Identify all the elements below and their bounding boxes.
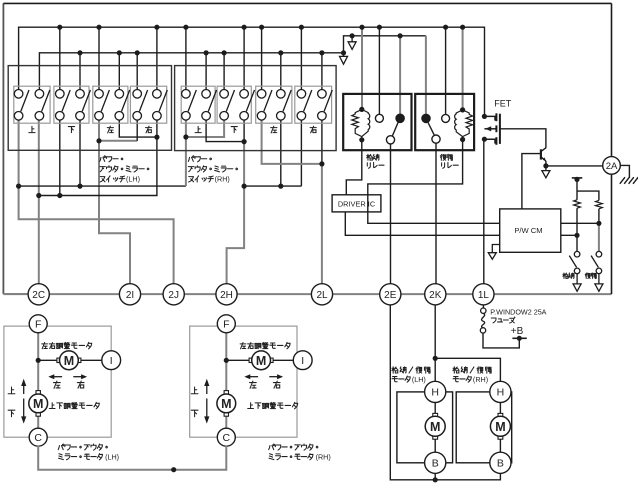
svg-text:C: C: [34, 432, 42, 444]
circuit breaker 2A: [603, 157, 621, 175]
motor M1 left-right adjusting (RH): [249, 351, 273, 370]
wire: node to reset switch: [598, 223, 600, 251]
wire: 2A to chassis ground: [620, 165, 629, 178]
svg-text:2I: 2I: [126, 290, 134, 301]
page connector arrow (P/W CM): [488, 253, 496, 260]
junction at (99.0,27.2): [96, 25, 101, 30]
label: up-down adjusting motor (LH): [49, 402, 99, 408]
wire: C(LH) to C(RH) common: [38, 446, 226, 470]
wire: bus A feed at x=244.1: [243, 27, 245, 89]
junction: R2 / P-W CM node: [596, 221, 601, 226]
wire: reset relay coil to P/W CM: [368, 140, 500, 224]
terminal B (RH): [490, 452, 511, 473]
wire: FET gate to transistor: [500, 129, 546, 148]
wire: bus A feed at x=99.0: [98, 27, 100, 89]
wire: LH sw8 bottom run to sw2/sw3 tie: [39, 120, 157, 195]
switch contact S15: [297, 90, 312, 121]
switch unit box (下): [217, 86, 251, 123]
junction at (362.0,27.2): [359, 25, 364, 30]
wire: RH sw8 bottom drop: [321, 120, 323, 164]
relay movable contact terminal (storage relay): [396, 114, 405, 123]
wire: transistor base to P/W CM: [522, 154, 540, 209]
label: power outer mirror motor (LH): [58, 444, 119, 461]
wire: bus A to storage relay fixed contact: [378, 27, 380, 114]
label: 下: [68, 127, 74, 133]
wire: bus B feed at x=206.1: [205, 53, 207, 90]
switch contact S16: [318, 90, 333, 121]
label: left-right adjusting motor (LH): [42, 342, 92, 348]
connector 2E: [380, 284, 401, 305]
wire: tap to motor M1 (LH): [38, 359, 58, 361]
junction: emitter node: [543, 163, 548, 168]
relay movable contact terminal (reset relay): [422, 114, 431, 123]
switch block box: power outer mirror switch RH: [175, 66, 337, 151]
relay coil (reset relay): [455, 107, 473, 142]
connector 2C: [28, 284, 49, 305]
junction at (80.0,186.1): [77, 184, 82, 189]
wire: reset relay contact to 2K: [435, 143, 437, 284]
junction at (261.6,27.2): [259, 25, 264, 30]
wire: motor M1 to terminal I (RH): [272, 359, 294, 361]
connector 1L: [473, 284, 494, 305]
switch contact S14: [277, 90, 292, 121]
wire: RH sw2 bottom to sw4 line: [206, 120, 244, 142]
switch contact S12: [240, 90, 255, 121]
mirror motor assembly box (LH): [4, 326, 111, 437]
switch contact S2: [35, 90, 50, 121]
wire: bus B feed at x=280.8: [280, 53, 282, 90]
junction at (244.1,27.2): [242, 25, 247, 30]
IC U1: DRIVER IC: [332, 195, 381, 212]
junction: R1 / P-W CM node: [574, 233, 579, 238]
wire: LH sw2 bottom to 2C: [38, 120, 40, 284]
wire: +B feed, top run across page: [3, 2, 611, 4]
wire: 2A to bus right riser: [611, 174, 613, 294]
junction: M1 tap (RH): [224, 358, 229, 363]
junction at (321.9,163.9): [319, 161, 324, 166]
svg-text:2L: 2L: [316, 290, 328, 301]
junction at (185.9,27.2): [183, 25, 188, 30]
junction at (185.9,137.0): [183, 134, 188, 139]
connector 2H: [216, 284, 237, 305]
svg-text:M: M: [64, 354, 74, 368]
svg-text:H: H: [497, 387, 505, 399]
wire: RH sw5 bottom to sw8 tie: [262, 120, 322, 164]
label: 左: [107, 126, 113, 133]
switch contact S9: [182, 90, 197, 121]
svg-text:I: I: [301, 355, 304, 367]
label: up-down adjusting motor (RH): [248, 402, 298, 408]
svg-text:1L: 1L: [478, 290, 490, 301]
label: 上: [195, 126, 201, 132]
label: 上: [29, 126, 35, 132]
motor M2 up-down adjusting (RH): [217, 391, 236, 417]
switch unit box (上): [14, 86, 50, 123]
wire: RH sw1 branch to sw3: [186, 120, 224, 137]
switch contact S1: [14, 90, 29, 121]
relay common contact (storage relay): [386, 136, 394, 144]
label: storage/return motor (LH): [392, 367, 430, 384]
svg-text:P.WINDOW2 25A: P.WINDOW2 25A: [490, 308, 546, 317]
label: 左: [271, 126, 277, 133]
switch contact S10: [202, 90, 217, 121]
page connector arrow below transistor: [542, 171, 550, 178]
junction at (379.4,27.2): [377, 25, 382, 30]
relay fixed contact (storage relay): [375, 114, 383, 122]
wire: bus A feed at x=59.8: [59, 27, 61, 89]
wire: branch to H (RH): [435, 358, 500, 381]
junction at (321.9,52.8): [319, 50, 324, 55]
storage/return motor box (LH): [397, 392, 453, 463]
junction at (119.3,52.8): [117, 50, 122, 55]
label: power outer mirror motor (RH): [269, 444, 331, 461]
junction at (59.8,195.5): [57, 193, 62, 198]
svg-text:M: M: [430, 420, 440, 434]
wire: bus A feed at x=301.4: [300, 27, 302, 89]
svg-text:P/W CM: P/W CM: [514, 226, 542, 235]
wire: relay supply bus C: [344, 36, 426, 53]
wire: +B feed, right branch down to circuit breaker 2A: [611, 3, 613, 156]
wire: bus B feed at x=137.2: [136, 53, 138, 90]
junction: B(LH) tap: [433, 477, 438, 482]
svg-text:I: I: [110, 355, 113, 367]
junction at (301.4,27.2): [299, 25, 304, 30]
labels: 上 下 (RH): [191, 387, 198, 417]
switch contact S4: [76, 90, 91, 121]
arrows: up-down travel (RH): [204, 379, 209, 424]
module: P/W CM (power window control module): [500, 209, 561, 252]
terminal H (LH): [425, 381, 446, 402]
switch unit box (上): [181, 86, 215, 123]
wire: B(LH) stub: [434, 473, 436, 479]
junction at (244.1,186.1): [242, 184, 247, 189]
junction at (445.6,27.2): [443, 25, 448, 30]
svg-text:2A: 2A: [606, 161, 618, 172]
labels: 上 下 (LH): [8, 387, 15, 417]
junction: M1 tap (LH): [36, 358, 41, 363]
transistor FET (power MOSFET): [484, 113, 500, 145]
label: FET: [494, 99, 512, 109]
wire: R2 to node: [598, 209, 600, 224]
wire: +B feed, left branch down to connector 2C: [3, 3, 28, 294]
svg-text:B: B: [497, 458, 504, 470]
label: P.WINDOW2 25A fuse: [490, 308, 546, 323]
wire: H to M (RH): [499, 403, 501, 416]
page connector arrow (reset switch): [595, 284, 603, 291]
label: left-right adjusting motor (RH): [240, 342, 290, 348]
svg-text:M: M: [256, 354, 266, 368]
label: power outer mirror switch (LH): [100, 156, 149, 184]
wire: bus B feed at x=80.0: [79, 53, 81, 90]
wire: motor spine F-C (RH): [225, 331, 227, 430]
motor M storage/return (RH): [490, 413, 510, 439]
wire: LH sw5 bottom to 2I: [99, 120, 130, 284]
wire: bus A to reset relay coil: [462, 27, 464, 110]
wire: RH sw4/sw6/sw7 tie (y=186): [244, 185, 301, 187]
svg-text:(RH): (RH): [473, 375, 488, 384]
label: 右: [145, 126, 151, 133]
svg-text:F: F: [35, 319, 41, 331]
label: power outer mirror switch (RH): [188, 156, 237, 184]
wire: motor M1 to terminal I (LH): [80, 359, 103, 361]
motor M2 up-down adjusting (LH): [29, 391, 48, 417]
junction at (137.2,52.8): [135, 50, 140, 55]
switch contact S6: [115, 90, 130, 121]
wire: bus A feed at x=261.6: [261, 27, 263, 89]
switch: reset position switch: [591, 251, 602, 273]
terminal I (LH): [102, 351, 121, 370]
svg-text:(LH): (LH): [412, 375, 426, 384]
junction at (38.8,195.5): [36, 193, 41, 198]
switch contact S3: [56, 90, 71, 121]
relay coil (storage relay): [352, 107, 370, 143]
wire: switch supply bus B (lower): [39, 53, 343, 90]
terminal B (LH): [425, 452, 446, 473]
wire: LH sw6 bottom to sw8 line: [119, 120, 157, 137]
wire: FET source to 1L: [483, 139, 485, 284]
wire: branch to resistor R2: [577, 191, 599, 200]
wire: 2E to motor B terminals: [390, 305, 500, 480]
svg-text:2J: 2J: [168, 290, 179, 301]
label: reset relay: [440, 154, 458, 168]
switch block box: power outer mirror switch LH: [8, 66, 171, 151]
wire: DRIVER IC to P/W CM: [345, 212, 499, 235]
svg-text:(RH): (RH): [316, 452, 331, 461]
svg-text:(LH): (LH): [126, 175, 140, 184]
wire: reset switch to page arrow: [598, 274, 600, 284]
wire: storage relay coil to DRIVER IC: [346, 140, 362, 195]
switch unit box (右): [295, 86, 332, 123]
switch unit box (左): [256, 86, 292, 123]
relay fixed contact (reset relay): [442, 114, 450, 122]
svg-text:DRIVER IC: DRIVER IC: [338, 199, 376, 208]
motor M1 left-right adjusting (LH): [57, 351, 81, 370]
relay box: storage relay: [343, 94, 411, 150]
wire: bus A to reset relay fixed contact: [445, 27, 447, 114]
terminal H (RH): [490, 381, 511, 402]
switch contact S13: [257, 90, 272, 121]
wire: motor spine F-C (LH): [37, 331, 39, 430]
arrows: left-right travel (LH): [48, 374, 87, 379]
resistor R2: [596, 200, 603, 208]
wire: stub to page arrow (bus B): [343, 53, 345, 57]
wire: M to B (LH): [434, 438, 436, 453]
switch contact S5: [95, 90, 110, 121]
page connector arrow (bus C): [348, 42, 356, 50]
terminal F (RH): [217, 315, 235, 333]
wire: RH sw4 run to 2H: [227, 142, 245, 284]
storage/return motor box (RH): [456, 392, 512, 463]
svg-text:(LH): (LH): [105, 452, 119, 461]
power terminal +B: [512, 336, 526, 341]
terminal I (RH): [293, 351, 312, 370]
junction: H branch tap: [433, 356, 438, 361]
svg-text:2K: 2K: [429, 290, 442, 301]
svg-text:2C: 2C: [32, 290, 45, 301]
junction at (18.6,186.1): [16, 184, 21, 189]
wire: P/W CM right pin 1 to resistor R2: [561, 222, 599, 224]
label: 右: [310, 126, 316, 133]
transistor Q1 (NPN): [541, 148, 546, 162]
wire: fuse to +B: [483, 333, 519, 348]
label: +B: [511, 326, 524, 337]
label: storage/return motor (RH): [453, 367, 491, 384]
junction at (280.8,186.1): [278, 184, 283, 189]
wire: drop to reset relay movable contact: [425, 36, 427, 114]
junction at (462.6,27.2): [460, 25, 465, 30]
relay common contact (reset relay): [432, 135, 440, 143]
wire: M to B (RH): [499, 438, 501, 453]
switch unit box (左): [93, 86, 128, 123]
page connector arrow (storage switch): [573, 284, 581, 291]
wire: tap to motor M1 (RH): [226, 359, 250, 361]
label: storage relay: [367, 154, 384, 168]
switch contact S11: [220, 90, 235, 121]
junction: bus C tap: [350, 33, 355, 38]
wire: LH sw3 bottom drop: [59, 120, 61, 195]
svg-text:+B: +B: [511, 326, 524, 337]
junction at (156.9,137.1): [154, 135, 159, 140]
wire: LH sw7 bottom drop: [136, 120, 138, 141]
junction at (80.0,52.8): [77, 50, 82, 55]
wire: storage switch to page arrow: [576, 274, 578, 284]
connector 2L: [311, 284, 332, 305]
wire: terminal to resistor R1: [576, 179, 578, 199]
svg-text:(RH): (RH): [215, 175, 230, 184]
wire: bus A feed at x=185.9: [185, 27, 187, 89]
junction: bus B/C tie: [341, 50, 346, 55]
wire: H to M (LH): [434, 403, 436, 416]
junction at (400.1,35.8): [398, 33, 403, 38]
label: storage (switch): [563, 273, 574, 278]
connector 2J: [163, 284, 184, 305]
labels: 左 右 (RH): [250, 381, 281, 388]
relay box: reset relay: [415, 94, 474, 150]
wire: RH sw6 bottom drop: [280, 120, 282, 186]
junction: FET source node: [482, 137, 487, 142]
wire: bus A feed at x=156.9: [156, 27, 158, 89]
junction: 2J tap on C-C wire: [171, 467, 176, 472]
relay lever (reset relay): [428, 122, 435, 135]
svg-text:M: M: [221, 397, 231, 411]
arrows: up-down travel (LH): [21, 379, 26, 424]
svg-text:2H: 2H: [220, 290, 233, 301]
wire: LH sw5 branch to sw7: [99, 140, 137, 142]
wire: RH sw4 bottom drop: [243, 120, 245, 142]
terminal C (LH): [29, 428, 47, 446]
wire: RH sw7 bottom drop: [300, 120, 302, 186]
junction at (224.1,52.8): [222, 50, 227, 55]
junction: FET drain node: [482, 114, 487, 119]
wire: 1L to fuse: [482, 305, 484, 308]
switch unit box (下): [54, 86, 89, 123]
svg-text:F: F: [223, 319, 229, 331]
wire: emitter node to page arrow: [545, 166, 547, 171]
wire: bus B feed at x=321.9: [321, 53, 323, 90]
switch contact S7: [133, 90, 148, 121]
labels: 左 右 (LH): [54, 381, 85, 388]
junction at (206.1,52.8): [204, 50, 209, 55]
wire: bus B feed at x=224.1: [223, 53, 225, 90]
switch contact S8: [153, 90, 168, 121]
svg-text:M: M: [495, 420, 505, 434]
mirror motor assembly box (RH): [190, 326, 297, 437]
terminal C (RH): [217, 428, 235, 446]
junction at (244.1,141.6): [242, 139, 247, 144]
relay lever (storage relay): [392, 122, 398, 136]
svg-text:2E: 2E: [384, 290, 397, 301]
junction at (280.8,52.8): [278, 50, 283, 55]
arrows: left-right travel (RH): [244, 374, 283, 379]
power terminal bar: [572, 177, 583, 182]
wire: switch supply bus A (upper): [19, 27, 485, 114]
page connector arrow (bus B): [340, 56, 348, 64]
ground (chassis): [620, 177, 638, 184]
junction at (156.9,27.2): [154, 25, 159, 30]
wire: LH sw4 bottom drop: [79, 120, 81, 186]
connector 2I: [119, 284, 140, 305]
switch: storage position switch: [569, 251, 580, 273]
svg-text:M: M: [33, 397, 43, 411]
terminal F (LH): [29, 315, 47, 333]
wire: RH sw1 bottom drop: [185, 120, 187, 186]
wire: RH sw8 tie to 2L: [321, 164, 323, 284]
junction at (59.8,27.2): [57, 25, 62, 30]
label: reset (switch): [585, 273, 596, 278]
svg-text:FET: FET: [494, 99, 512, 109]
label: 下: [231, 127, 237, 133]
wire: stub to page arrow (bus C): [351, 36, 353, 42]
wire: P/W CM right pin 2 to resistor R1: [561, 234, 577, 236]
switch unit box (右): [130, 86, 166, 123]
svg-text:B: B: [432, 458, 439, 470]
wire: LH sw1 bottom to 2J: [19, 120, 174, 284]
svg-text:C: C: [223, 432, 231, 444]
resistor R1: [574, 200, 581, 208]
wire: main bus at connector row: [3, 293, 611, 295]
wire: P/W CM to page arrow: [492, 245, 499, 253]
junction at (99.0,140.8): [96, 138, 101, 143]
wire: LH net to RH sw1 (y=186): [19, 185, 186, 187]
motor M storage/return (LH): [425, 413, 445, 439]
wire: bus A to storage relay coil: [361, 27, 363, 109]
wire: drop to storage relay movable contact: [399, 36, 401, 114]
svg-text:H: H: [431, 387, 439, 399]
fuse F1: P.WINDOW2 25A: [480, 308, 486, 333]
wire: storage relay contact to 2E: [390, 144, 392, 284]
wire: bus B feed at x=119.3: [118, 53, 120, 90]
wire: 2K to H terminals: [434, 305, 436, 381]
wire: transistor emitter to 2A: [546, 161, 603, 166]
connector 2K: [425, 284, 446, 305]
wire: R1 to storage switch: [576, 208, 578, 251]
